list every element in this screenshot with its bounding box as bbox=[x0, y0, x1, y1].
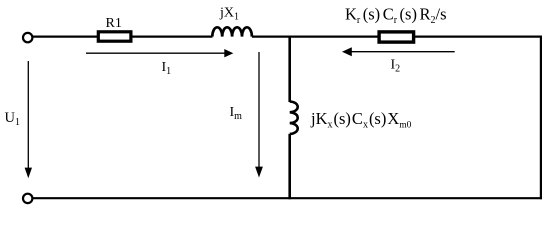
wire magnetizing branch bottom bbox=[288, 134, 291, 199]
label jKx(s)Cx(s)Xm0 bbox=[310, 109, 412, 131]
svg-text:I2: I2 bbox=[391, 58, 401, 75]
label I1 bbox=[162, 60, 172, 77]
label I2 bbox=[391, 58, 401, 75]
node junction middle top bbox=[288, 36, 291, 103]
label U1 bbox=[5, 110, 20, 128]
inductor Lm magnetizing branch bbox=[290, 102, 298, 134]
wire R1 to L1 bbox=[131, 35, 213, 37]
label R1 bbox=[106, 16, 122, 31]
inductor L1 jX1 bbox=[212, 27, 252, 36]
arrow Im (magnetizing current, downward) bbox=[255, 52, 263, 178]
arrow I2 (rotor current, leftward) bbox=[342, 47, 455, 56]
terminal T1 (top-left input) bbox=[23, 33, 32, 42]
svg-text:I1: I1 bbox=[162, 60, 172, 77]
terminal T2 (bottom-left input) bbox=[23, 194, 32, 203]
wire L1 to right corner bbox=[252, 35, 542, 37]
arrow I1 (stator current, rightward) bbox=[86, 49, 233, 57]
svg-text:R1: R1 bbox=[106, 16, 122, 31]
wire right vertical bbox=[540, 36, 542, 200]
svg-text:U1: U1 bbox=[5, 110, 20, 128]
resistor R2 rotor block bbox=[379, 32, 414, 42]
wire bottom bbox=[33, 197, 542, 199]
arrow U1 (voltage, downward) bbox=[25, 61, 32, 178]
label Im bbox=[230, 105, 243, 122]
svg-text:Im: Im bbox=[230, 105, 243, 122]
wire top-left segment bbox=[33, 35, 98, 37]
svg-text:jX1: jX1 bbox=[219, 6, 239, 23]
label Kr(s)Cr(s)R2/s bbox=[345, 5, 447, 27]
resistor R1 bbox=[98, 32, 131, 41]
label jX1 bbox=[219, 6, 239, 23]
svg-text:jKx(s)Cx(s)Xm0: jKx(s)Cx(s)Xm0 bbox=[310, 109, 412, 131]
svg-text:Kr(s)Cr(s)R2/s: Kr(s)Cr(s)R2/s bbox=[345, 5, 447, 27]
